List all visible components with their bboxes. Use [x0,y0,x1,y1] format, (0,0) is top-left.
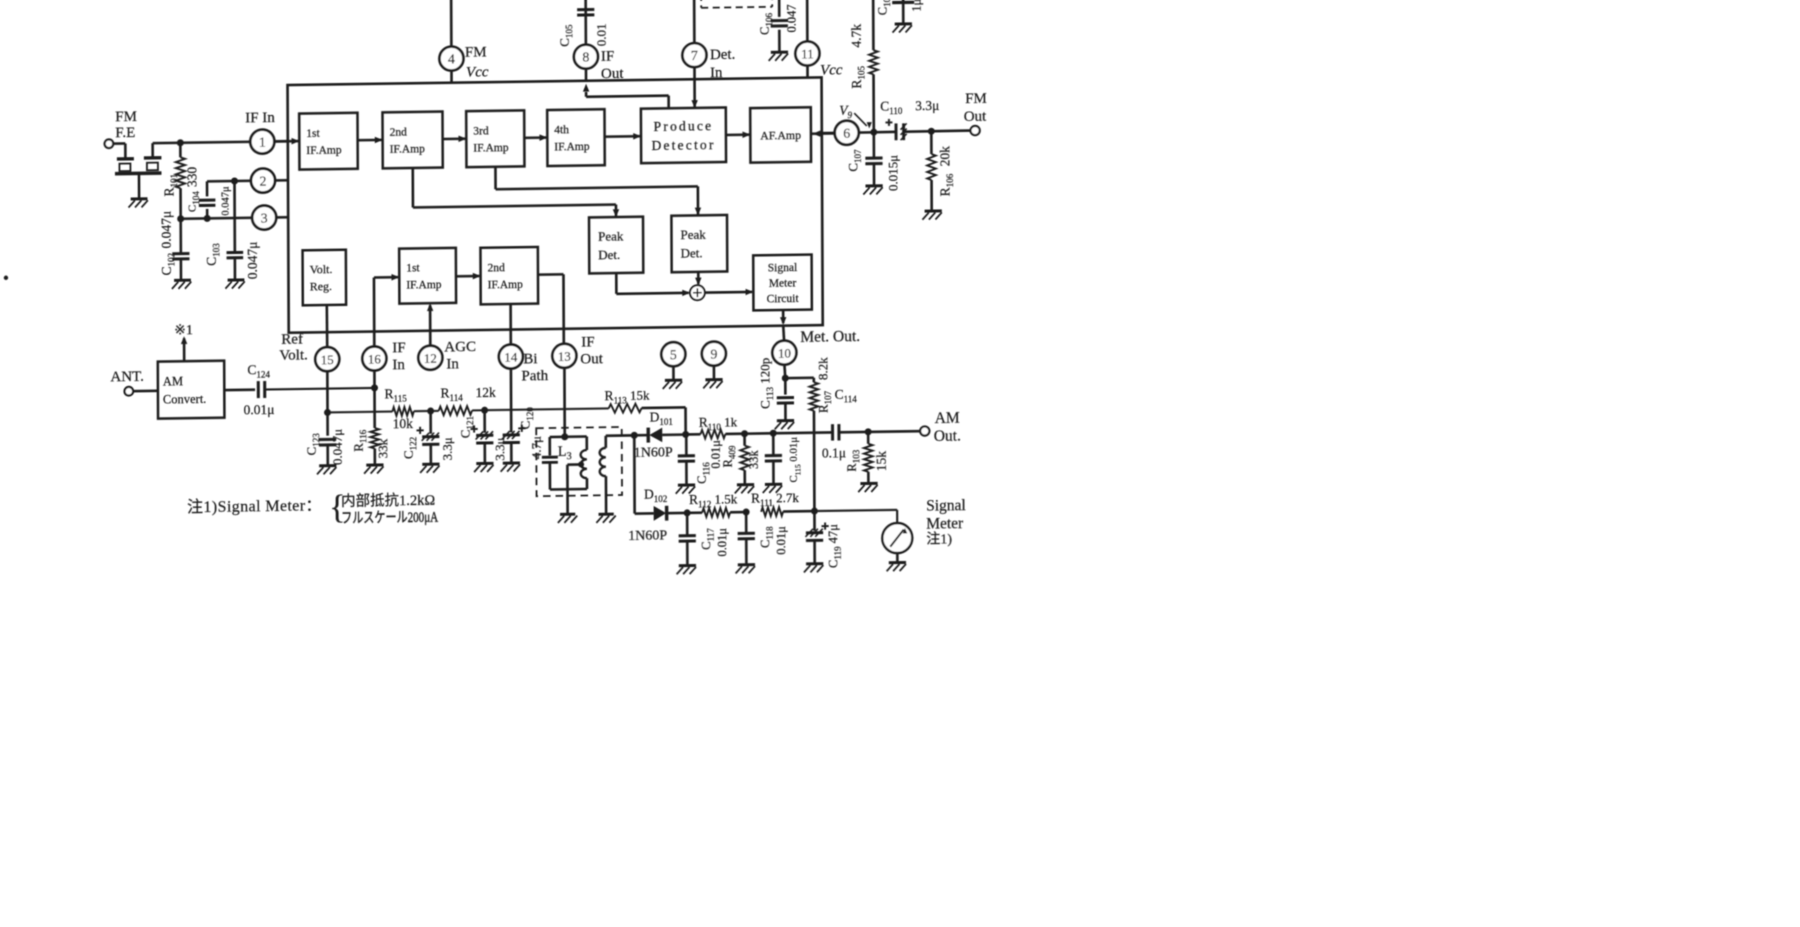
block AF.Amp [750,107,811,162]
svg-text:IF.Amp: IF.Amp [390,143,425,156]
wire junction to R107 [785,376,814,379]
block Signal Meter Circuit [753,255,812,311]
junction at R101 top [177,139,184,146]
svg-text:Peak: Peak [680,227,706,242]
pin 12 AGC In [418,346,442,370]
ground for C122 [422,463,439,466]
capacitor C116 0.01u to ground [685,434,688,454]
junction R109 [741,430,748,437]
svg-text:1N60P: 1N60P [628,528,667,544]
wire Produce Detector to AF.Amp [726,133,750,136]
svg-text:In: In [710,65,723,81]
ground for R103 [860,482,877,485]
FM Out terminal [970,126,979,135]
IC block outline [288,77,823,332]
dashed box (cut off at top) [700,0,702,8]
AM Convert block [158,361,225,419]
svg-text:注1): 注1) [926,531,952,547]
svg-text:Det.: Det. [710,47,735,63]
wire AF.Amp to pin 6 with left arrow [811,132,835,135]
resistor R113 15k [609,404,642,413]
svg-text:1st: 1st [306,128,320,140]
wire R107 down to D102 row (crosses AM line) [813,411,816,511]
wire R113 to D101 node [642,406,686,409]
junction C119/R107/meter [811,507,818,514]
svg-text:3rd: 3rd [473,125,489,137]
junction D102/C117 [684,509,691,516]
capacitor C102 0.047u to ground [179,219,182,254]
svg-text:3.3μ: 3.3μ [915,98,939,113]
pin 14 Bi Path [499,344,523,368]
electrolytic capacitor C122 3.3u to ground [429,411,432,434]
electrolytic capacitor C120 4.7u to ground [503,433,520,436]
wire C110 to FM Out [904,131,971,132]
svg-text:F.E: F.E [115,125,135,141]
svg-text:4: 4 [448,52,455,67]
ground for R106 [925,209,942,212]
wire Signal Meter Circuit to pin 10 Met Out with down arrow [782,310,785,323]
ground for C103 [228,278,245,281]
svg-text:0.01μ: 0.01μ [244,402,275,417]
ground for C120 [503,461,520,464]
ground for C123 [319,464,336,467]
diode D102 1N60P (anode left) [654,506,667,521]
AGC bus wire [328,411,393,414]
svg-text:Convert.: Convert. [163,392,206,407]
pin 2 [251,168,275,192]
pin 5 with ground [661,342,685,366]
wire AM Convert to C124 [224,388,255,391]
svg-text:注1)Signal Meter：: 注1)Signal Meter： [187,496,322,516]
ground for L3 tap [560,513,575,516]
resistor R115 10k [392,407,413,416]
svg-text:FM: FM [965,91,987,107]
svg-text:10: 10 [778,345,791,360]
svg-text:Det.: Det. [681,245,703,260]
arrow to *1 above AM Convert [183,338,186,361]
wire input to ceramic filter [113,142,125,145]
svg-text:4th: 4th [554,124,569,136]
resistor R101 330 [179,143,182,158]
capacitor C124 0.01u (coupling) [257,381,260,398]
pin 3 [252,205,276,229]
svg-text:Reg.: Reg. [310,279,332,293]
pin 11 Vcc [806,0,809,42]
resistor R114 12k [431,410,439,412]
resistor R112 1.5k [687,511,702,514]
ground for C106 [771,51,788,54]
electrolytic capacitor C121 3.3u to ground [483,410,486,433]
AM Out terminal [920,426,929,435]
L3 primary winding [565,435,587,438]
svg-text:IF: IF [581,334,594,350]
svg-text:33k: 33k [375,438,390,458]
svg-text:FM: FM [465,44,487,60]
wire Peak Det 1 to summing node with arrow [615,273,618,294]
block 1st IF.Amp (FM) [299,113,358,170]
ground for C115 [765,483,782,486]
svg-text:7: 7 [691,49,698,64]
node A junction (R101/C102/pin3 row) [177,215,184,222]
svg-text:Det.: Det. [598,247,620,262]
junction R106 [928,128,935,135]
svg-text:15: 15 [321,352,334,367]
svg-text:0.047: 0.047 [785,4,799,32]
pin 16 IF In (AM) [362,346,386,370]
wire antenna to AM Convert [133,390,158,393]
junction node V9 [870,129,877,136]
svg-text:Out.: Out. [934,428,961,445]
svg-text:IF.Amp: IF.Amp [473,142,508,155]
wire 3rd IF.Amp down to Peak Det 2 with arrow [494,167,497,190]
wire D101 node down to D102 [633,435,636,513]
svg-text:2: 2 [259,174,266,189]
pin 1 IF In [250,129,274,153]
ceramic filter element 1 [117,157,134,161]
svg-text:3.3μ: 3.3μ [492,437,507,460]
ground for C102 [174,279,191,282]
svg-text:IF.Amp: IF.Amp [406,279,441,292]
capacitor C117 0.01u to ground [686,513,689,535]
L3 dashed box [536,427,622,496]
antenna terminal [124,387,133,396]
ground for C107 [865,184,882,187]
block Peak Det. 1 [589,217,643,274]
wire Volt.Reg to pin 15 [326,305,329,347]
svg-text:IF.Amp: IF.Amp [306,144,341,157]
junction R103 [865,428,872,435]
svg-text:1N60P: 1N60P [634,445,673,461]
pin 16 wire down to R116 [373,371,376,429]
svg-text:0.01μ: 0.01μ [715,528,729,557]
electrolytic capacitor C119 47u to ground [813,511,816,531]
wire 2nd to 3rd IF.Amp [443,137,467,140]
svg-text:In: In [392,357,405,373]
pin 8 IF Out [574,45,598,69]
block 2nd IF.Amp (FM) [382,112,442,169]
junction D101/R113/R110/C116 [682,431,689,438]
svg-text:1μ: 1μ [910,0,924,12]
svg-text:Volt.: Volt. [279,347,308,363]
svg-text:5: 5 [670,348,677,363]
svg-text:330: 330 [184,167,199,188]
FM input terminal [105,139,114,148]
wire pin 6 to junction [859,131,896,134]
svg-text:Out: Out [580,351,603,367]
junction C115 [745,432,774,435]
junction L3/D101/D102 node [631,432,638,439]
junction pin12/C122 [427,407,434,414]
svg-text:IF: IF [601,49,614,65]
block Produce Detector [641,107,726,163]
wire filter to pin 1 [180,142,250,143]
capacitor C113 120p to ground [784,378,787,395]
svg-text:Ref: Ref [281,332,303,348]
pin 4 FM Vcc [450,0,453,47]
wire pin1 to 1st IF.Amp with arrow [274,140,300,143]
electrolytic capacitor C110 3.3u [895,123,898,140]
block 1st IF.Amp (AM) [399,248,456,304]
junction pin15/C123/bus [324,409,331,416]
svg-text:内部抵抗1.2kΩ: 内部抵抗1.2kΩ [341,492,435,510]
svg-text:14: 14 [504,349,518,364]
wire 2nd IF.Amp (AM) to pin 13 [538,273,564,276]
svg-text:0.01: 0.01 [594,23,609,46]
ground for C109 [895,22,912,25]
resistor R107 8.2k [812,378,815,383]
svg-text:Out: Out [964,109,987,125]
wire C115 node to C114 (crosses R107 line) [773,431,832,434]
svg-text:13: 13 [558,349,571,364]
capacitor C114 0.1u (coupling) [831,424,834,440]
ground for R109 [737,483,754,486]
svg-text:1st: 1st [406,262,420,274]
ground for C118 [738,563,755,566]
svg-text:IF.Amp: IF.Amp [488,279,523,292]
svg-text:12: 12 [424,350,437,365]
svg-text:Vcc: Vcc [820,62,843,78]
svg-text:8: 8 [582,50,589,65]
junction pin13/L3 primary top [561,433,568,440]
wire C114 to AM Out [839,431,920,432]
feedback wire Produce Detector to pin 8 (IF Out) with up arrow [585,92,588,97]
capacitor C109 1u (cut off at top) [902,0,905,1]
svg-text:12k: 12k [476,385,497,400]
block Volt. Reg. [303,250,347,306]
wire pin 10 down to junction [783,365,786,379]
svg-text:Peak: Peak [598,228,624,243]
resistor R116 33k to ground [370,428,379,449]
pin 14 wire down through bus to C120 [510,369,513,433]
pin 10 Met Out [772,340,796,364]
wire pin 2 to C104 and C103 [207,179,252,182]
svg-text:0.047μ: 0.047μ [245,242,260,280]
L3 secondary bottom lead to ground [605,476,608,513]
svg-text:Detector: Detector [651,137,715,153]
svg-text:6: 6 [843,127,850,142]
junction R111/C118 [743,508,750,515]
junction C121 [472,409,485,411]
wire 1st to 2nd IF.Amp (AM) with arrow [456,275,479,278]
svg-text:Path: Path [521,368,548,384]
svg-text:11: 11 [801,46,814,61]
svg-text:0.015μ: 0.015μ [885,155,900,191]
svg-text:IF: IF [392,340,405,356]
svg-text:16: 16 [368,351,382,366]
wire node A to pin 3 [181,218,253,219]
resistor R110 1k [688,433,701,436]
ground for R116 [366,463,383,466]
AGC bus wire to R113 [485,408,609,410]
ground for C116 [678,483,695,486]
capacitor C118 0.01u to ground [745,512,748,532]
ground for Signal Meter [896,553,899,562]
svg-text:Vcc: Vcc [466,64,489,80]
ground for C119 [806,562,823,565]
junction C104 bottom [204,215,211,222]
ceramic filter common plate [115,171,162,175]
wire pin 12 up into 1st IF.Amp (AM) bottom with arrow [429,305,432,346]
svg-text:3: 3 [261,211,268,226]
svg-text:ANT.: ANT. [110,369,144,385]
svg-text:AM: AM [163,374,183,388]
svg-text:FM: FM [115,109,137,125]
svg-text:Met. Out.: Met. Out. [800,328,860,346]
svg-text:Bi: Bi [523,351,537,367]
svg-text:Produce: Produce [654,118,714,134]
svg-text:Circuit: Circuit [767,293,800,305]
resistor R103 15k to ground [867,432,870,444]
junction C113/R107 [782,375,789,382]
capacitor C103 0.047u to ground [233,181,236,253]
stray ink dot [4,276,8,280]
block Peak Det. 2 [671,215,727,272]
svg-text:0.01μ: 0.01μ [774,526,788,555]
svg-text:0.047μ: 0.047μ [221,186,232,216]
pin 15 wire down to AGC bus [326,371,329,412]
wire summing node to Signal Meter Circuit with arrow [705,291,752,294]
svg-text:33k: 33k [747,450,761,470]
wire 3rd to 4th IF.Amp [524,136,547,139]
resistor R105 4.7k [872,0,875,50]
wire 1st to 2nd IF.Amp [358,139,383,142]
wire C124 to pin16 node [265,388,375,390]
svg-text:4.7k: 4.7k [849,24,864,48]
pin 15 Ref Volt [315,347,339,371]
capacitor C107 0.015u to ground [873,132,876,157]
svg-text:9: 9 [710,347,717,362]
svg-text:Meter: Meter [926,515,964,533]
pin 6 [835,121,859,145]
svg-text:IF In: IF In [245,110,275,126]
resistor R111 2.7k [761,507,783,516]
ground for C117 [679,564,696,567]
block 2nd IF.Amp (AM) [480,247,538,304]
svg-text:0.047μ: 0.047μ [330,429,345,465]
pin 9 with ground [702,341,726,365]
wire pin 16 up to 1st IF.Amp (AM) with arrow [373,278,376,347]
wire Peak Det 2 down into summing node with arrow [697,272,700,284]
Signal Meter symbol [882,523,912,553]
svg-text:AGC: AGC [444,339,476,355]
junction pin2/C103 [231,177,238,184]
ground for C121 [476,462,493,465]
ground for C113 [777,419,794,422]
capacitor C104 0.047u [206,181,209,196]
svg-text:AM: AM [935,410,960,427]
svg-text:2nd: 2nd [390,127,408,139]
svg-text:8.2k: 8.2k [815,357,830,380]
L3 secondary top lead to D101 node [604,436,607,448]
pin 13 IF Out (AM) [552,344,576,368]
svg-text:AF.Amp: AF.Amp [760,128,801,143]
capacitor C106 0.047u [778,0,781,17]
wire 4th IF.Amp to Produce Detector [605,135,641,138]
capacitor C115 0.01u to ground [772,433,775,455]
ceramic filter element 2 [144,156,162,160]
capacitor C105 0.01u at pin 8 [584,0,587,45]
svg-text:15k: 15k [874,451,889,472]
resistor R109 33k to ground [743,434,746,446]
L3 secondary winding [600,448,606,476]
block 4th IF.Amp (FM) [547,109,605,166]
svg-text:1: 1 [259,135,266,150]
svg-text:Signal: Signal [768,262,797,274]
svg-text:3.3μ: 3.3μ [440,437,455,460]
svg-text:0.047μ: 0.047μ [159,211,174,249]
svg-text:0.1μ: 0.1μ [822,445,846,460]
wire pin 14 to 2nd IF.Amp (AM) bottom [509,304,512,345]
svg-text:Meter: Meter [769,277,797,289]
svg-text:20k: 20k [937,146,952,167]
L3 tank capacitor [550,436,565,439]
svg-text:※1: ※1 [174,323,193,338]
pin 13 wire down into L3 box [563,368,566,437]
svg-text:In: In [446,356,459,372]
svg-text:2nd: 2nd [488,262,506,274]
ceramic filter ground [138,173,141,198]
L3 tap junction and ground lead [578,461,584,467]
svg-text:フルスケール200μA: フルスケール200μA [341,509,438,527]
capacitor C123 0.047u to ground [326,412,329,435]
wire to Signal Meter [814,510,897,511]
svg-text:Signal: Signal [926,497,966,515]
wire pin 7 (Det In) into Produce Detector with down arrow [693,67,696,108]
diode D101 1N60P (cathode left) [634,434,648,437]
wire 2nd IF.Amp down to Peak Det 1 with arrow [411,168,414,208]
svg-text:IF.Amp: IF.Amp [554,141,589,154]
pin 7 Det In [693,0,696,43]
junction below pin 16 [371,384,378,391]
svg-text:Out: Out [601,66,624,82]
svg-text:Volt.: Volt. [310,262,333,276]
resistor R106 20k to ground [930,131,933,154]
svg-text:10k: 10k [393,416,414,431]
block 3rd IF.Amp (FM) [466,110,524,167]
summing node circle with plus [690,285,705,300]
